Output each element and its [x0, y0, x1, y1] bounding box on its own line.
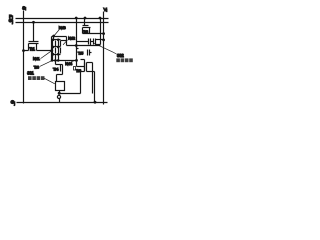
transistor Tr2	[83, 26, 91, 34]
node dot gate wire	[75, 44, 78, 47]
node dots bottom wire	[51, 59, 54, 62]
svg-text:Tr4: Tr4	[53, 67, 59, 72]
svg-text:302: 302	[117, 53, 124, 58]
power line Pj	[16, 18, 109, 20]
node dot on Pj for Tr2 gate	[84, 17, 87, 20]
svg-text:301: 301	[27, 71, 34, 76]
svg-text:Tr6: Tr6	[34, 64, 39, 69]
svg-text:Nd2: Nd2	[68, 35, 75, 40]
wire cluster top	[52, 36, 67, 38]
node dot top wire	[52, 35, 55, 38]
scan line Gj+1 (bottom)	[17, 102, 108, 104]
leader 301	[44, 78, 55, 84]
wire hook to Tr5	[77, 46, 79, 49]
svg-text:Si: Si	[22, 5, 26, 11]
wire Tr2 to Vi	[83, 33, 104, 35]
wire Tr1 drain to node Nd1	[37, 50, 52, 52]
node dots lower bar	[52, 53, 55, 56]
transistor pair lower left	[53, 48, 56, 54]
transistor Tr5 body	[81, 50, 92, 72]
transistor Tr6 (mirror pair left, upper)	[53, 41, 56, 47]
wire Pj branch down	[76, 19, 78, 61]
leader Nd3	[54, 30, 59, 36]
leader Nd1	[41, 51, 52, 58]
node dot anode	[58, 92, 61, 95]
svg-text:Gj: Gj	[9, 18, 14, 24]
svg-text:Gj: Gj	[11, 100, 16, 106]
node dot Nd1	[50, 49, 53, 52]
wire riser	[53, 37, 55, 41]
wire cluster upper bar	[52, 39, 61, 41]
terminal mark Tr3	[74, 67, 76, 71]
wire mid bar	[52, 46, 61, 48]
wire node to Tr3	[77, 61, 85, 67]
wire Si to Tr1 source	[24, 50, 29, 52]
label storage capacitance (kanji blocks)	[116, 58, 133, 62]
node dot on Gj for Tr1 gate	[32, 21, 35, 24]
svg-text:Vi: Vi	[104, 7, 108, 13]
transistor Tr3	[85, 63, 95, 72]
node dots upper bar	[52, 39, 55, 42]
svg-text:Tr1: Tr1	[29, 46, 35, 51]
wire cluster left rail	[51, 37, 53, 61]
transistor pair lower right	[59, 48, 61, 54]
svg-text:Nd3: Nd3	[59, 25, 66, 30]
wire Pj to Tr5	[100, 19, 102, 45]
node dots mid bar	[52, 46, 55, 49]
node dot on Vi lower	[102, 39, 105, 42]
label light emitting element (kanji blocks)	[28, 76, 45, 80]
leader Tr6	[40, 61, 51, 66]
supply line Vi	[103, 12, 105, 105]
leader 302	[94, 43, 117, 54]
capacitor 302 storage	[77, 39, 94, 46]
wire Tr3 zigzag	[81, 72, 85, 94]
wire Tr1 gate lead	[33, 23, 35, 42]
light emitting element 301 box	[56, 82, 65, 91]
wire cathode to bottom line	[59, 99, 61, 103]
transistor mirror pair right, upper	[59, 41, 61, 47]
wire cluster lower bar	[52, 54, 61, 56]
transistor Tr5	[94, 39, 104, 46]
wire box to anode node	[59, 91, 61, 94]
node dot on bottom line	[94, 101, 97, 104]
svg-text:Tr5: Tr5	[78, 51, 83, 56]
wire upper stub to right rail	[61, 40, 67, 42]
node dot on Si	[22, 49, 25, 52]
svg-text:Nd1: Nd1	[33, 56, 40, 61]
data line Si	[23, 11, 25, 104]
transistor Tr4	[56, 61, 63, 82]
scan line Gj	[16, 22, 109, 24]
wire cluster right rail	[66, 37, 68, 46]
wire anode to Tr3	[60, 93, 81, 95]
wire risers to bottom wire	[53, 55, 59, 61]
wire cluster bottom (node Nd4)	[52, 60, 77, 62]
wire Tr3 source down	[94, 72, 96, 103]
terminal circle cathode	[57, 95, 60, 98]
wire mirror gate to Tr5	[67, 45, 101, 47]
node dot on Vi upper	[102, 32, 105, 35]
leader Nd2	[63, 40, 68, 45]
transistor Tr1	[29, 42, 39, 51]
node dot on Pj for Tr5 branch	[99, 17, 102, 20]
node dot on Pj for mirror branch	[75, 17, 78, 20]
wire Tr3 drain down	[92, 63, 94, 94]
wire Tr2 gate lead	[84, 19, 86, 26]
leader Nd4	[71, 61, 74, 62]
